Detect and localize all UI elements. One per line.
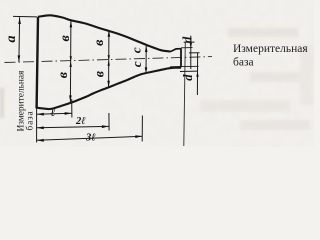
svg-text:с: с bbox=[129, 61, 144, 67]
dimension 3l line bbox=[37, 136, 143, 140]
specimen bottom profile curve bbox=[36, 68, 181, 109]
svg-text:а: а bbox=[4, 36, 19, 43]
long extension line at right end bbox=[184, 42, 186, 147]
bottom extension: 3l station bbox=[141, 116, 143, 142]
dimension c: vertical line bbox=[145, 46, 147, 74]
svg-text:в: в bbox=[92, 39, 107, 46]
dimension c: arrows bbox=[145, 46, 148, 52]
head top extension bbox=[181, 47, 193, 49]
dimension a: extension tick top bbox=[13, 15, 37, 18]
svg-text:с: с bbox=[129, 47, 144, 53]
svg-text:d: d bbox=[181, 36, 195, 43]
svg-text:база: база bbox=[24, 110, 35, 130]
dimension l line bbox=[37, 113, 72, 114]
specimen left edge bbox=[37, 17, 38, 109]
dimension b2: vertical line bbox=[108, 30, 110, 87]
svg-text:в: в bbox=[58, 35, 73, 42]
svg-text:в: в bbox=[92, 70, 107, 77]
dimension d top: tick bbox=[184, 41, 195, 43]
specimen top profile curve bbox=[38, 15, 170, 51]
dimension d bottom: vertical line with arrow bbox=[196, 53, 198, 95]
short mid segment right end bbox=[189, 52, 200, 54]
svg-text:2ℓ: 2ℓ bbox=[75, 116, 86, 127]
specimen head bottom edge bbox=[170, 66, 181, 68]
bottom extension: 2l station bbox=[108, 113, 110, 131]
dimension d bottom: tick bbox=[180, 70, 198, 72]
dimension a: arrows bbox=[18, 17, 21, 24]
dimension a: vertical line bbox=[18, 17, 21, 62]
svg-text:база: база bbox=[233, 57, 254, 69]
svg-text:в: в bbox=[56, 71, 71, 78]
dimension 2l line bbox=[37, 126, 109, 127]
dimension b1: arrows bbox=[70, 21, 73, 28]
specimen head top flare bbox=[170, 49, 181, 52]
dimension b1: vertical line bbox=[69, 21, 72, 102]
dimension d top: vertical line with arrow bbox=[190, 36, 192, 69]
centerline (dash-dot axis) bbox=[5, 57, 213, 63]
svg-text:d: d bbox=[181, 74, 195, 81]
specimen right end face bbox=[180, 48, 182, 67]
dimension b2: arrows bbox=[108, 30, 111, 37]
head bottom extension bbox=[181, 65, 199, 67]
bottom extension: l station bbox=[71, 99, 73, 118]
svg-text:Измерительная: Измерительная bbox=[233, 43, 308, 55]
svg-text:3ℓ: 3ℓ bbox=[85, 133, 96, 144]
svg-text:ℓ: ℓ bbox=[51, 105, 56, 119]
bottom extension: left edge extended bbox=[36, 109, 38, 143]
